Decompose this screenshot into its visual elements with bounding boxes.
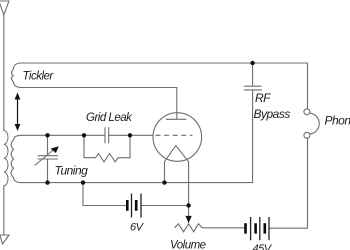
svg-text:Tuning: Tuning (55, 164, 89, 178)
svg-text:Tickler: Tickler (23, 71, 55, 83)
svg-text:Phones: Phones (325, 114, 350, 128)
svg-text:RF: RF (255, 91, 271, 105)
svg-text:45V: 45V (253, 243, 273, 250)
svg-text:Volume: Volume (170, 240, 206, 250)
svg-text:6V: 6V (130, 222, 145, 234)
svg-text:Grid Leak: Grid Leak (86, 112, 133, 124)
svg-text:Bypass: Bypass (254, 107, 291, 121)
